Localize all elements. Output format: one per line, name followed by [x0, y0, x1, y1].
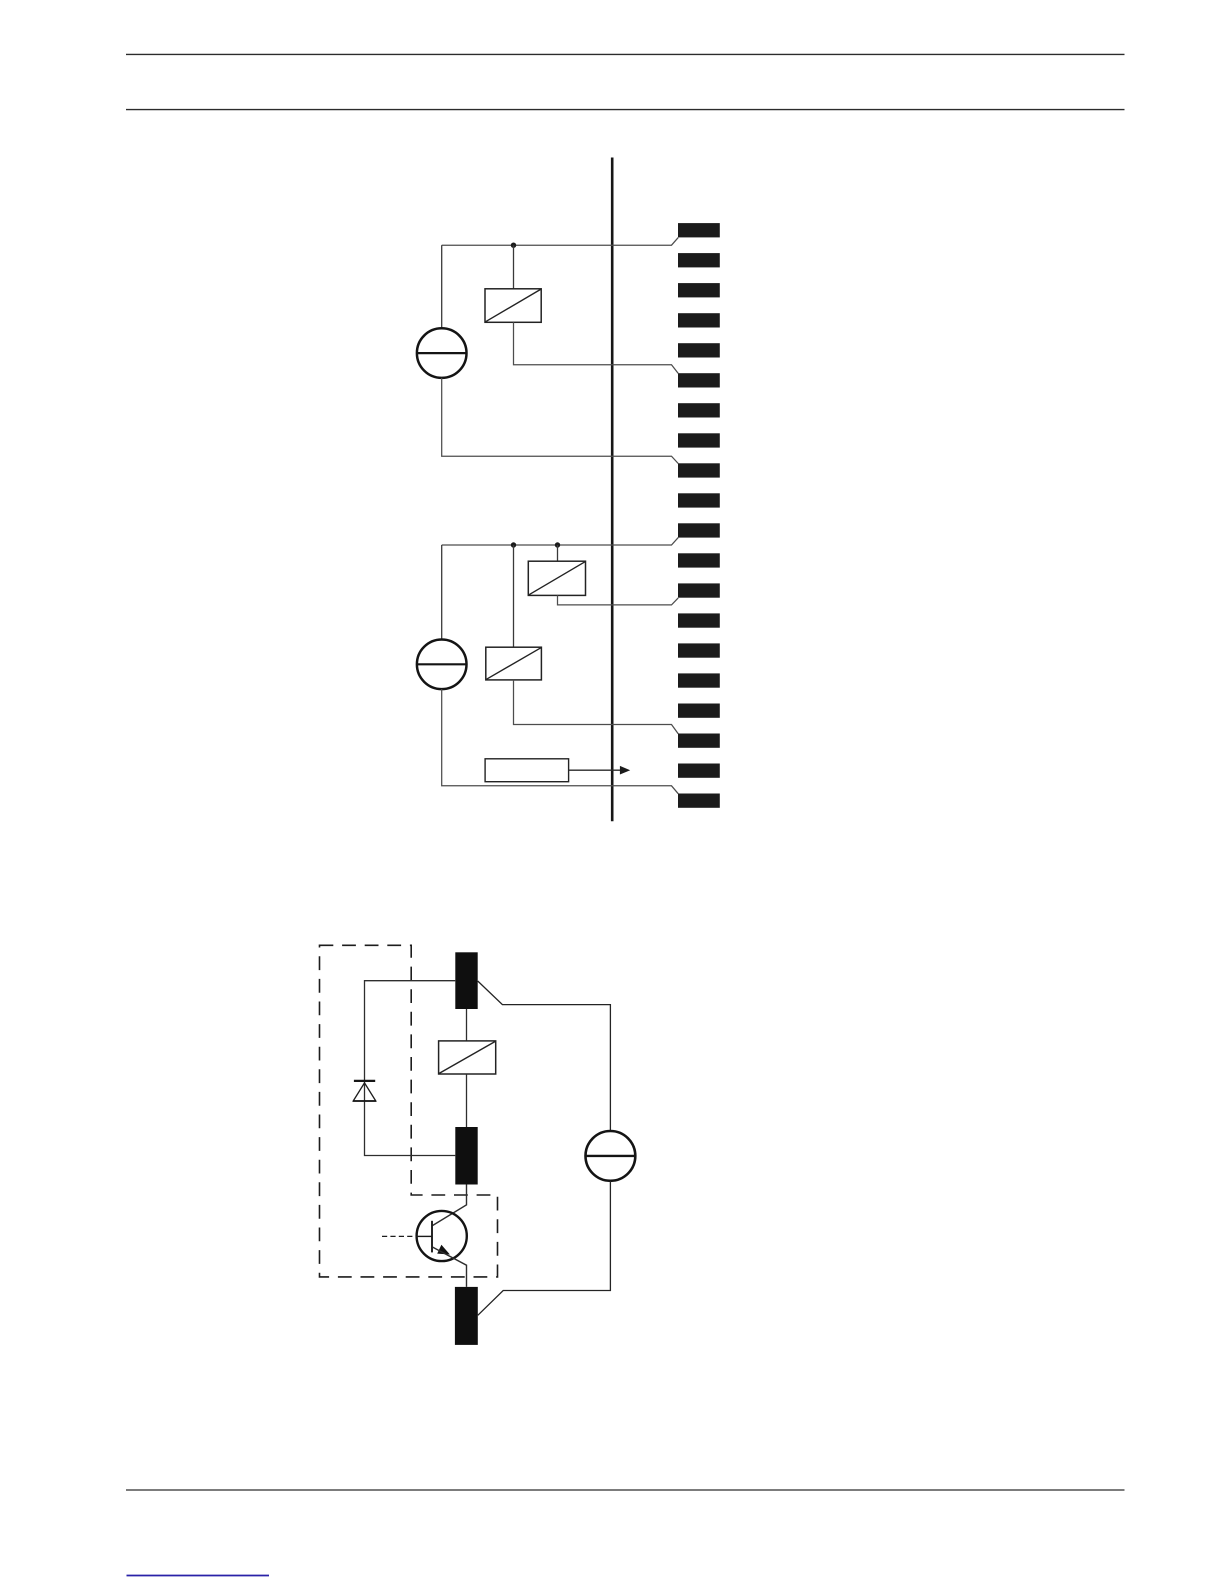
wire source G1 to pad P9 [442, 378, 679, 464]
connector pad P4 [678, 313, 720, 327]
connector pad P9 [678, 463, 720, 477]
connector pad P8 [678, 433, 720, 447]
connector pad P14 [678, 613, 720, 627]
connector pad P16 [678, 673, 720, 687]
current source G1 [417, 328, 467, 378]
connector pad B (middle) [455, 1127, 477, 1185]
current source G2 [417, 640, 467, 690]
relay coil K1 [485, 289, 541, 323]
wire transistor emitter to pad C [432, 1247, 466, 1287]
connector pad P6 [678, 373, 720, 387]
connector pad P20 [678, 794, 720, 808]
transistor Q1 [417, 1211, 467, 1261]
footnote rule (blue) [127, 1575, 270, 1577]
wire relay K4 to pad B [466, 1074, 468, 1127]
wire junction B to relay K2 [557, 545, 559, 561]
connector pad P7 [678, 403, 720, 417]
node junction dot A circuit 2 [511, 542, 516, 547]
wire junction to relay K1 [513, 245, 515, 289]
control box (time delay block) [485, 759, 568, 782]
footer rule [126, 1489, 1125, 1491]
connector pad P13 [678, 583, 720, 597]
wire relay K2 to pad P13 [558, 595, 679, 605]
bus line (connector spine) [611, 158, 614, 822]
relay coil K3 [486, 647, 542, 680]
wire relay K1 to pad P6 [514, 322, 679, 373]
connector pad P10 [678, 493, 720, 507]
arrow output of control box [569, 766, 631, 775]
wire source G3 to pad C (right branch bottom) [478, 1181, 611, 1316]
connector pad A (top) [455, 952, 477, 1009]
wire left branch circuit 2 [441, 545, 443, 640]
connector pad P3 [678, 283, 720, 297]
wire top of circuit 1 to pad P1 [442, 238, 679, 246]
node junction dot circuit 1 [511, 243, 516, 248]
wire source G2 to pad P20 [442, 689, 679, 794]
header rule top [126, 53, 1125, 55]
node junction dot B circuit 2 [555, 542, 560, 547]
dashed base control line [382, 1235, 418, 1237]
connector pad P15 [678, 643, 720, 657]
dashed enclosure (module outline) [320, 945, 498, 1277]
wire top of circuit 2 to pad P11 [442, 538, 679, 545]
header rule bottom [126, 109, 1125, 111]
connector pad P2 [678, 253, 720, 267]
wire pad B to transistor collector [432, 1185, 466, 1226]
wire relay K3 to pad P18 [514, 680, 679, 734]
relay coil K2 [528, 561, 585, 595]
relay coil K4 [439, 1041, 496, 1074]
connector pad P11 [678, 523, 720, 537]
current source G3 [586, 1131, 636, 1181]
connector pad P1 [678, 223, 720, 237]
diode D1 [353, 1081, 376, 1101]
wire pad A through diode branch to pad B [365, 981, 456, 1156]
connector pad P18 [678, 734, 720, 748]
wire left branch circuit 1 [441, 245, 443, 328]
connector pad C (bottom) [455, 1287, 478, 1345]
connector pad P5 [678, 343, 720, 357]
wire junction A to relay K3 [513, 545, 515, 647]
wire pad A to relay K4 [466, 1009, 468, 1041]
connector pad P17 [678, 704, 720, 718]
connector pad P12 [678, 553, 720, 567]
wire pad A to source G3 (right branch top) [478, 981, 611, 1131]
connector pad P19 [678, 764, 720, 778]
